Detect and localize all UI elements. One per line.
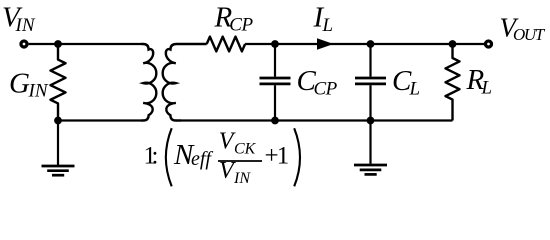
- wire node C to node D (with current arrow): [275, 43, 371, 45]
- label G_IN: [9, 68, 49, 102]
- label I_L: [313, 2, 334, 36]
- wire node D to node E: [371, 43, 453, 45]
- label C_CP: [297, 65, 338, 100]
- wire C_L bottom to output ground: [369, 121, 371, 164]
- wire transformer primary bottom to node B: [58, 119, 141, 121]
- terminal V_IN: [21, 41, 27, 47]
- wire R_CP to node C: [245, 43, 275, 45]
- svg-text:IN: IN: [28, 81, 49, 102]
- svg-text:L: L: [481, 78, 493, 99]
- capacitor C_CP: [260, 44, 291, 121]
- ground (output side): [354, 165, 387, 174]
- node A (input top junction): [54, 40, 62, 48]
- current arrow I_L: [317, 38, 334, 49]
- transformer secondary winding L2: [163, 44, 207, 121]
- ground (input side): [42, 166, 75, 175]
- svg-text:G: G: [9, 68, 30, 100]
- capacitor C_L: [355, 44, 386, 121]
- label V_OUT: [500, 13, 546, 45]
- node C_L bottom / ground junction: [367, 117, 375, 125]
- label C_L: [392, 65, 420, 100]
- node D (C_L top junction): [367, 40, 375, 48]
- svg-text:OUT: OUT: [513, 25, 546, 44]
- node C_CP bottom junction: [271, 117, 279, 125]
- transformer turns-ratio label: 1 : ( N_eff (V_CK / V_IN) + 1 ): [144, 128, 301, 187]
- label R_CP: [214, 2, 254, 36]
- resistor R_CP: [207, 37, 245, 52]
- terminal V_OUT: [486, 41, 492, 47]
- svg-text:CP: CP: [314, 79, 338, 100]
- node C (C_CP top junction): [271, 40, 279, 48]
- wire node E to terminal V_OUT: [453, 43, 485, 45]
- svg-text:IN: IN: [233, 170, 251, 187]
- svg-text:IN: IN: [15, 15, 36, 36]
- svg-text:L: L: [409, 79, 421, 100]
- node E (R_L top junction): [449, 40, 457, 48]
- resistor R_L: [446, 44, 460, 121]
- svg-text:1: 1: [277, 143, 290, 170]
- node B (input bottom junction): [54, 117, 62, 125]
- wire V_IN terminal to node A: [29, 43, 58, 45]
- wire node A to transformer primary top: [58, 43, 141, 45]
- wire bottom rail (secondary bottom to R_L bottom): [181, 119, 453, 121]
- svg-text:CK: CK: [234, 141, 257, 158]
- big left parenthesis: [166, 128, 172, 186]
- svg-text:CP: CP: [229, 15, 253, 36]
- label R_L: [466, 64, 493, 99]
- svg-text:eff: eff: [191, 148, 213, 170]
- svg-text::: :: [152, 143, 159, 170]
- label V_IN: [2, 1, 36, 36]
- conductance G_IN: [51, 44, 66, 121]
- svg-text:L: L: [322, 15, 334, 36]
- fraction bar: [218, 160, 262, 162]
- transformer primary winding L1: [141, 44, 156, 121]
- wire node B to input ground: [57, 121, 59, 166]
- big right parenthesis: [294, 128, 300, 186]
